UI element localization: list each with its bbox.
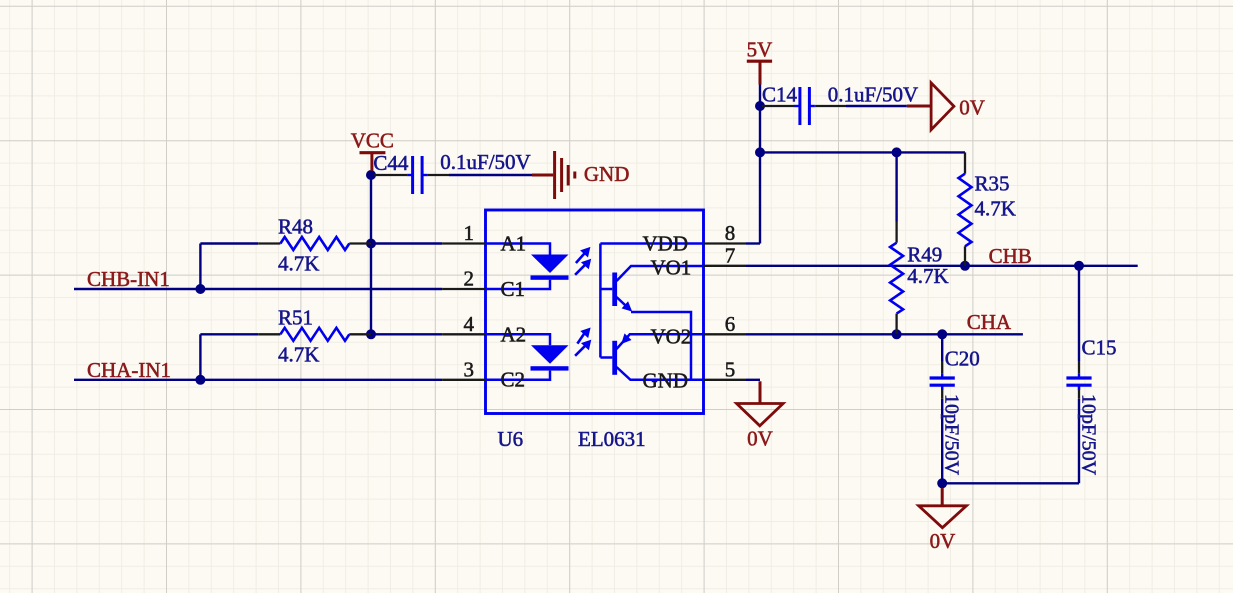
svg-text:0.1uF/50V: 0.1uF/50V	[440, 150, 530, 174]
svg-text:EL0631: EL0631	[578, 427, 646, 451]
wire CHB-IN1 branch up to R48	[200, 244, 258, 290]
svg-text:CHA: CHA	[967, 310, 1012, 334]
wire pin 5 stub to 0V	[746, 379, 760, 381]
svg-text:4.7K: 4.7K	[278, 343, 319, 367]
pin name C1	[501, 277, 526, 301]
junction R49 bottom	[892, 329, 902, 339]
wire pin 8 to 5V rail	[746, 242, 760, 244]
svg-text:4.7K: 4.7K	[907, 264, 948, 288]
svg-text:R49: R49	[907, 243, 942, 267]
capacitor C44	[373, 150, 530, 194]
junction 5V rail	[755, 147, 765, 157]
junction C20 top	[937, 329, 947, 339]
junction R48 right	[366, 239, 376, 249]
svg-text:VDD: VDD	[643, 231, 689, 255]
svg-text:C44: C44	[373, 151, 409, 175]
svg-text:4: 4	[464, 312, 475, 336]
pin 1	[442, 221, 485, 245]
svg-text:0V: 0V	[930, 529, 956, 553]
pin name A2	[501, 322, 527, 346]
svg-text:C2: C2	[501, 368, 526, 392]
pin name VO2	[650, 325, 691, 349]
resistor R49	[890, 222, 949, 335]
junction CHA-IN1	[195, 375, 205, 385]
svg-text:4.7K: 4.7K	[278, 252, 319, 276]
svg-text:VO2: VO2	[650, 325, 691, 349]
junction bottom rail	[937, 478, 947, 488]
junction VCC C44	[366, 170, 376, 180]
resistor R51	[258, 306, 371, 367]
svg-text:0V: 0V	[959, 96, 985, 120]
svg-text:A2: A2	[501, 322, 527, 346]
pin 2	[442, 267, 485, 291]
svg-text:6: 6	[725, 312, 736, 336]
svg-text:4.7K: 4.7K	[975, 197, 1016, 221]
svg-text:8: 8	[725, 221, 736, 245]
pin 6	[704, 312, 747, 336]
junction R49 top	[892, 147, 902, 157]
wire 5V horizontal rail	[760, 151, 965, 153]
svg-text:CHA-IN1: CHA-IN1	[87, 358, 171, 382]
designator U6	[498, 427, 524, 451]
wire CHA to C20	[941, 334, 943, 361]
svg-text:C14: C14	[762, 83, 798, 107]
wire VCC rail vertical	[370, 175, 372, 334]
capacitor C20	[930, 347, 980, 476]
wire C15 to bottom rail	[1078, 399, 1080, 484]
wire CHA row	[746, 333, 1023, 335]
pin name A1	[501, 231, 527, 255]
svg-text:5V: 5V	[747, 38, 773, 62]
wire 5V rail vertical	[759, 84, 761, 244]
net label CHB-IN1	[87, 267, 170, 291]
svg-text:7: 7	[725, 243, 736, 267]
LED D2 inside U6	[486, 334, 569, 380]
wire CHB row	[746, 265, 1138, 267]
junction CHB R35	[960, 261, 970, 271]
svg-text:2: 2	[464, 267, 475, 291]
svg-text:5: 5	[725, 357, 736, 381]
svg-text:0.1uF/50V: 0.1uF/50V	[828, 83, 918, 107]
wire R48 to pin 1	[371, 242, 442, 244]
wire CHA-IN1 branch up to R51	[200, 334, 258, 380]
power port VCC	[351, 129, 394, 171]
junction CHB C15	[1074, 261, 1084, 271]
svg-text:VCC: VCC	[351, 129, 394, 153]
resistor R48	[258, 215, 371, 276]
svg-text:R51: R51	[278, 306, 313, 330]
pin 7	[704, 243, 747, 267]
wire CHA-IN1 row	[74, 379, 442, 381]
svg-text:R48: R48	[278, 215, 313, 239]
svg-text:CHB-IN1: CHB-IN1	[87, 267, 170, 291]
svg-text:0V: 0V	[747, 427, 773, 451]
pin 3	[442, 357, 485, 381]
power port 0V right of C14	[907, 83, 985, 130]
op-amp U6 body	[486, 210, 704, 414]
power port 0V below U6	[737, 381, 784, 450]
pin 5	[704, 357, 747, 381]
power port 0V bottom right	[919, 488, 967, 553]
svg-text:GND: GND	[584, 162, 630, 186]
pin 4	[442, 312, 485, 336]
net label CHA	[967, 310, 1012, 334]
svg-text:C1: C1	[501, 277, 526, 301]
svg-text:R35: R35	[975, 172, 1010, 196]
wire rail to R49	[895, 152, 897, 221]
svg-text:U6: U6	[498, 427, 524, 451]
svg-text:10pF/50V: 10pF/50V	[941, 394, 963, 476]
power ground GND	[532, 151, 629, 199]
svg-text:3: 3	[464, 357, 475, 381]
wire C44 to GND	[449, 174, 532, 176]
wire CHB-IN1 row	[74, 288, 442, 290]
net label CHA-IN1	[87, 358, 171, 382]
svg-text:GND: GND	[643, 369, 689, 393]
wire bottom rail	[942, 482, 1079, 484]
wire C14 to 0V	[846, 105, 907, 107]
value EL0631	[578, 427, 646, 451]
svg-text:C15: C15	[1082, 336, 1117, 360]
svg-text:CHB: CHB	[989, 244, 1032, 268]
svg-text:10pF/50V: 10pF/50V	[1078, 394, 1100, 476]
capacitor C14	[762, 83, 918, 126]
pin name VDD	[643, 231, 689, 255]
light arrows LED2	[575, 328, 591, 356]
light arrows LED1	[575, 247, 591, 275]
svg-text:C20: C20	[945, 347, 980, 371]
junction R51 right	[366, 329, 376, 339]
svg-text:VO1: VO1	[650, 256, 691, 280]
junction CHB-IN1	[195, 284, 205, 294]
LED D1 inside U6	[486, 244, 569, 290]
svg-text:1: 1	[464, 221, 475, 245]
phototransistor rail	[600, 244, 703, 358]
wire C20 to bottom rail	[941, 399, 943, 484]
resistor R35	[959, 152, 1016, 265]
pin name GND	[643, 369, 689, 393]
svg-text:A1: A1	[501, 231, 527, 255]
pin name VO1	[650, 256, 691, 280]
transistor Q1	[612, 266, 703, 380]
transistor Q2	[612, 333, 703, 379]
net label CHB	[989, 244, 1032, 268]
pin name C2	[501, 368, 526, 392]
pin 8	[704, 221, 747, 245]
capacitor C15	[1066, 336, 1116, 476]
junction 5V C14	[755, 101, 765, 111]
wire CHB to C15	[1078, 266, 1080, 361]
power port 5V	[747, 38, 773, 85]
wire R51 to pin 4	[371, 333, 442, 335]
